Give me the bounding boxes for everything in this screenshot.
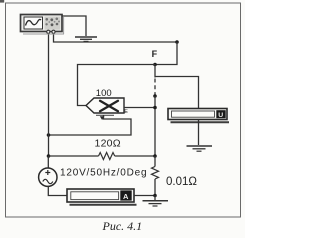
node F dot	[153, 63, 157, 67]
oscilloscope screen with sine trace	[24, 17, 43, 29]
junction dot output	[153, 106, 157, 110]
multiplier gain block U1	[86, 98, 124, 115]
corner scan artifact	[0, 0, 4, 3]
wire multiplier lower input to left bus	[49, 115, 132, 135]
voltmeter U	[168, 109, 229, 123]
shunt resistor R2 0.01 ohm	[152, 156, 159, 196]
dashed wire segment	[154, 79, 156, 96]
junction dot bottom	[153, 194, 157, 198]
ground G3	[143, 201, 169, 206]
svg-text:0.01Ω: 0.01Ω	[166, 176, 197, 188]
ground G2	[187, 146, 213, 151]
wire voltmeter to ground	[198, 120, 200, 146]
wire scope top-right to ground	[62, 16, 86, 36]
wire down-left to node F	[155, 42, 177, 65]
svg-text:A: A	[123, 192, 129, 201]
svg-text:120V/50Hz/0Deg: 120V/50Hz/0Deg	[60, 168, 147, 179]
wire source bottom to ammeter	[48, 187, 67, 196]
AC source V1	[39, 156, 57, 186]
junction dot resistor right	[153, 154, 157, 158]
wire ammeter to shunt node	[134, 195, 155, 197]
svg-text:U: U	[218, 112, 223, 119]
wire scope terminal B right along top	[54, 35, 178, 43]
ground G1	[75, 37, 97, 41]
junction dot	[153, 94, 157, 98]
schematic frame	[6, 3, 241, 217]
svg-text:E: E	[124, 109, 128, 115]
svg-text:F: F	[152, 49, 158, 59]
wire main bus down	[154, 96, 156, 156]
svg-text:Рис. 4.1: Рис. 4.1	[102, 219, 143, 233]
junction dot left bus lower	[47, 154, 51, 158]
wire node F to multiplier upper input	[78, 65, 156, 106]
oscilloscope knobs	[45, 17, 61, 30]
junction dot left bus upper	[47, 133, 51, 137]
oscilloscope XSC1 body	[21, 15, 65, 35]
oscilloscope terminals	[47, 30, 50, 33]
input arrow marker	[100, 116, 105, 120]
ammeter A	[67, 189, 137, 205]
wire tee to voltmeter	[155, 77, 199, 109]
node dot top right	[175, 40, 179, 44]
wire node F down to voltmeter tee	[154, 65, 156, 78]
paper background	[0, 0, 245, 238]
resistor R1 120 ohm	[49, 153, 156, 160]
multiplier output wire	[124, 107, 155, 109]
ground G3 stub	[154, 196, 156, 201]
left bus wire from scope	[48, 35, 50, 157]
svg-text:120Ω: 120Ω	[95, 138, 121, 150]
